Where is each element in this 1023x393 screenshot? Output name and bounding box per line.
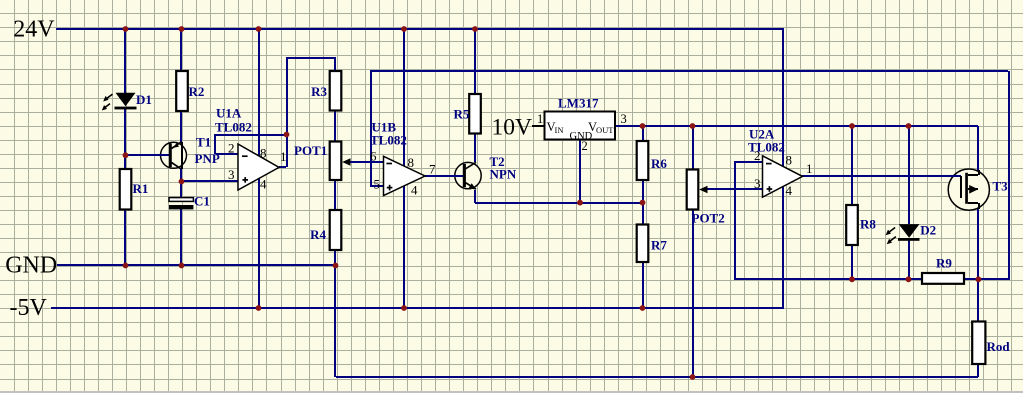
svg-text:2: 2	[582, 139, 588, 153]
svg-text:6: 6	[370, 148, 377, 163]
wire Rod bottom to return rail	[977, 364, 979, 377]
resistor R4	[310, 210, 341, 250]
svg-text:2: 2	[228, 141, 235, 156]
svg-text:R4: R4	[310, 227, 326, 242]
wire D2 anode from 10V rail	[908, 126, 910, 224]
wire R5 top to 24V	[474, 29, 476, 94]
resistor Rod	[972, 322, 1010, 365]
resistor R1	[120, 169, 149, 210]
wire T1 emitter to C1 node	[180, 169, 182, 198]
resistor R9	[922, 256, 964, 284]
resistor R7	[637, 225, 668, 263]
wire R1 bottom to GND	[124, 210, 126, 266]
svg-text:8: 8	[260, 146, 267, 161]
svg-text:R2: R2	[189, 84, 205, 99]
wire R7 bottom to -5V	[642, 262, 644, 308]
junction dot POT2 bottom return rail	[690, 374, 696, 380]
svg-text:R6: R6	[651, 156, 667, 171]
potentiometer POT2	[687, 170, 725, 226]
op-amp U2A	[748, 127, 803, 198]
wire D1 anode from 24V	[124, 29, 126, 93]
wire U1A pin2 input	[216, 153, 238, 155]
svg-text:5: 5	[374, 177, 381, 192]
junction dot T1 emitter C1 node	[179, 179, 185, 185]
wire 24V rail	[56, 28, 784, 30]
net label 24V	[13, 16, 55, 42]
capacitor C1	[169, 194, 210, 210]
wire R8 top to 10V rail	[851, 126, 853, 205]
svg-text:LM317: LM317	[558, 96, 599, 111]
svg-text:U1A: U1A	[216, 106, 242, 121]
svg-text:OUT: OUT	[596, 125, 614, 135]
svg-text:1: 1	[537, 112, 543, 126]
transistor T1 PNP	[160, 135, 220, 183]
svg-text:TL082: TL082	[215, 120, 252, 135]
wire U1B pin5 sense rail top	[370, 70, 1008, 186]
resistor R3	[311, 71, 341, 111]
resistor R5	[454, 94, 481, 134]
svg-text:-5V: -5V	[10, 295, 48, 321]
svg-text:R5: R5	[454, 107, 470, 122]
junction dots GND rail	[123, 263, 339, 269]
pin numbers U1A	[228, 141, 287, 192]
svg-text:3: 3	[754, 176, 761, 191]
net label 10V	[492, 114, 533, 140]
transistor T2 NPN	[454, 154, 517, 190]
wire R5 bottom to T2 collector	[474, 134, 476, 162]
diode D1 LED	[102, 92, 152, 111]
svg-text:3: 3	[228, 167, 235, 182]
junction dots 10V rail	[640, 123, 912, 129]
svg-text:R7: R7	[651, 238, 667, 253]
svg-text:4: 4	[260, 177, 267, 192]
wire R3 POT1 R4 chain	[334, 110, 336, 377]
wire U2A feedback from sense rail	[734, 162, 922, 280]
svg-text:1: 1	[280, 149, 287, 164]
wire LM317 pin2 down to divider	[579, 140, 581, 203]
svg-text:TL082: TL082	[370, 133, 407, 148]
wire GND rail	[57, 264, 336, 266]
wire LM317 output 10V rail	[616, 125, 978, 127]
wire R6 top to 10V rail	[642, 126, 644, 141]
svg-text:10V: 10V	[492, 114, 533, 140]
wire D1 cathode to base node and R1	[124, 109, 126, 169]
svg-text:D2: D2	[920, 222, 936, 237]
resistor R2	[176, 71, 204, 111]
wire U2A pin2 input	[734, 161, 762, 163]
wire R2 top to 24V	[180, 29, 182, 71]
wire POT2 wiper to U2A pin3	[706, 188, 762, 190]
potentiometer POT1	[294, 142, 351, 181]
svg-text:NPN: NPN	[490, 166, 517, 181]
resistor R6	[637, 141, 668, 180]
wire POT2 top to 10V rail	[692, 126, 694, 170]
svg-text:R8: R8	[860, 217, 876, 232]
svg-text:R9: R9	[936, 256, 952, 271]
svg-text:R1: R1	[133, 181, 149, 196]
junction dot U1A feedback node	[284, 132, 290, 138]
svg-text:PNP: PNP	[195, 151, 220, 166]
svg-text:1: 1	[806, 161, 813, 176]
wire U1B supply rail 24V to -5V	[403, 29, 405, 308]
net label GND	[5, 253, 57, 279]
svg-text:2: 2	[754, 148, 761, 163]
wire C1 bottom to GND	[180, 209, 182, 266]
op-amp U1A	[215, 106, 279, 191]
svg-text:4: 4	[411, 183, 418, 198]
svg-text:8: 8	[786, 153, 793, 168]
op-amp U1B	[370, 120, 425, 196]
wire sense node to Rod top	[977, 279, 979, 322]
wire 10V net stub to LM317 pin1	[532, 125, 544, 127]
svg-text:4: 4	[786, 183, 793, 198]
junction dots -5V rail	[256, 305, 646, 311]
svg-text:24V: 24V	[13, 16, 55, 42]
wire U1A supply rail 24V to -5V	[258, 29, 260, 308]
wire U2A output to T3 gate	[802, 175, 961, 177]
net label -5V	[10, 295, 48, 321]
wire T3 source to sense node	[977, 203, 979, 279]
wire U1A pin3 input from T1/C1 node	[182, 180, 238, 182]
svg-text:Rod: Rod	[987, 339, 1011, 354]
wire -5V rail	[51, 307, 784, 309]
transistor T3 MOSFET	[948, 169, 1008, 210]
svg-text:POT1: POT1	[294, 143, 327, 158]
junction dots divider rail	[577, 200, 645, 206]
svg-text:C1: C1	[194, 194, 210, 209]
svg-text:T1: T1	[196, 135, 211, 150]
resistor R8	[846, 205, 876, 245]
svg-text:POT2: POT2	[692, 211, 725, 226]
svg-text:IN: IN	[555, 125, 564, 135]
wire R8 bottom to sense rail	[851, 245, 853, 279]
wire sense rail right of R9	[964, 71, 1010, 280]
svg-text:7: 7	[429, 161, 436, 176]
wire POT2 bottom to return rail	[692, 210, 694, 377]
wire U1A output to feedback node	[279, 166, 286, 168]
pin numbers U1B	[370, 148, 436, 197]
svg-text:D1: D1	[136, 92, 152, 107]
wire U1B pin5 input	[370, 185, 384, 187]
pin numbers LM317	[537, 112, 627, 153]
wire R2 bottom to T1 collector	[180, 111, 182, 142]
wire T1 base from D1/R1 node	[126, 154, 169, 156]
svg-text:8: 8	[408, 155, 415, 170]
wire U1A feedback top segment to R3	[286, 57, 336, 71]
wire bottom return rail	[336, 376, 978, 378]
svg-text:GND: GND	[5, 253, 57, 279]
regulator LM317	[545, 96, 616, 143]
wire U1A feedback horizontal	[214, 58, 288, 167]
junction dots sense rail	[849, 276, 981, 282]
wire D2 cathode to sense rail	[908, 240, 910, 279]
wire R6 bottom to R7 top	[642, 180, 644, 224]
junction dots 24V rail	[123, 26, 478, 32]
wire T3 drain from 10V rail	[977, 126, 979, 175]
wire T2 emitter rail to LM317 adj divider	[474, 190, 642, 204]
svg-text:3: 3	[621, 112, 627, 126]
svg-text:T3: T3	[993, 179, 1009, 194]
pin numbers U2A	[754, 148, 813, 198]
wire U1B output pin7 to T2 base	[425, 175, 463, 177]
wire POT1 wiper to U1B pin6	[349, 161, 384, 163]
svg-text:R3: R3	[311, 84, 327, 99]
wire U2A supply rail 24V to -5V	[782, 29, 784, 308]
junction dot T1 base node	[123, 152, 129, 158]
diode D2 LED	[886, 222, 937, 244]
